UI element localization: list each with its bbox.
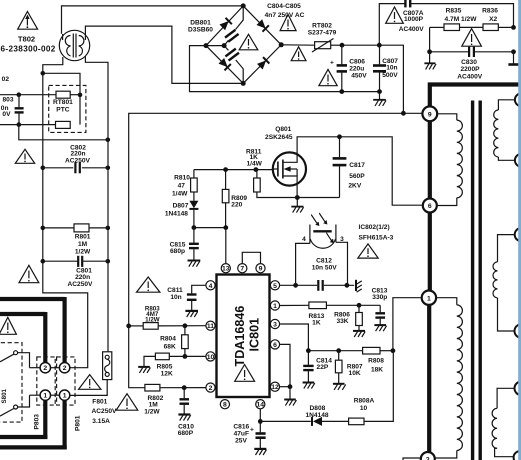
svg-text:5: 5 [273, 283, 277, 290]
svg-text:R804: R804 [160, 335, 176, 342]
wire mains L input [0, 94, 56, 96]
resistor R806 [356, 305, 363, 330]
svg-text:12K: 12K [161, 371, 173, 378]
wire pin3 to feedback row [280, 324, 309, 351]
capacitor C812 [318, 280, 354, 291]
ground pin5 (sideways) [356, 280, 362, 292]
wire pin2 row R802 [129, 326, 145, 388]
wire T802 bottom-right lead [85, 57, 108, 140]
capacitor C805 (inner) [224, 46, 228, 51]
ground bus [373, 92, 386, 106]
connector P803 dashed box [37, 357, 55, 405]
resistor R835 [430, 24, 483, 31]
switch contact lower [14, 405, 18, 409]
warning triangle C801 [19, 265, 39, 282]
diode D807 [189, 201, 198, 228]
ground pin12 [284, 387, 296, 406]
pin 8 [220, 400, 229, 409]
svg-text:560P: 560P [349, 173, 365, 180]
thick wire 6-1 [428, 213, 432, 291]
svg-text:11: 11 [207, 323, 214, 330]
svg-text:C811: C811 [167, 287, 183, 294]
svg-text:10: 10 [360, 405, 368, 412]
svg-text:1/4W: 1/4W [247, 160, 263, 167]
svg-text:D807: D807 [173, 202, 189, 209]
secondary winding A-B [494, 100, 515, 161]
secondary node B [515, 154, 521, 167]
svg-text:4.7M 1/2W: 4.7M 1/2W [445, 16, 478, 23]
capacitor C807 [373, 45, 386, 94]
primary winding 9-6 [437, 114, 463, 206]
svg-text:AC250V: AC250V [92, 408, 118, 415]
svg-text:680p: 680p [170, 248, 185, 255]
capacitor C816 [250, 421, 266, 448]
ground C813 [374, 325, 386, 331]
svg-text:1K: 1K [312, 320, 321, 327]
terminal bar right [508, 52, 521, 65]
warning triangle C806 [319, 69, 337, 85]
primary winding 1-3 [435, 298, 463, 458]
svg-text:4: 4 [302, 236, 306, 243]
svg-text:6: 6 [428, 203, 432, 210]
node RT801 right [78, 93, 83, 98]
warning triangle R803 [137, 277, 160, 292]
svg-text:RT802: RT802 [312, 22, 332, 29]
resistor R803 [143, 323, 158, 330]
pin 10 [206, 352, 215, 361]
ground C815 [188, 261, 201, 267]
svg-text:9: 9 [428, 111, 432, 118]
fuse F801 [70, 352, 112, 396]
svg-text:R835: R835 [446, 8, 462, 15]
secondary winding C-D [493, 235, 515, 331]
svg-text:Q801: Q801 [275, 126, 291, 133]
pin 6 [270, 340, 279, 349]
warning triangle DB801 [239, 34, 258, 50]
pin 4 [206, 281, 215, 290]
svg-text:AC250V: AC250V [68, 281, 94, 288]
IC U801 TDA16846 box [217, 275, 270, 398]
svg-text:AC250V: AC250V [65, 157, 91, 164]
svg-text:DB801: DB801 [190, 19, 211, 26]
svg-text:F801: F801 [92, 399, 107, 406]
ground C811 [185, 311, 198, 317]
svg-text:2200P: 2200P [460, 66, 480, 73]
resistor R808A [349, 418, 364, 425]
capacitor C803 [15, 92, 24, 127]
capacitor C817 [333, 137, 347, 198]
wire gate row [194, 169, 273, 171]
resistor R804 [182, 326, 189, 357]
svg-text:+: + [330, 60, 334, 67]
diode bottom-left [218, 58, 231, 71]
ground Q801 source [291, 198, 303, 213]
svg-text:1: 1 [63, 393, 67, 400]
capacitor C804 (inner) [236, 6, 244, 30]
svg-text:6: 6 [273, 342, 277, 349]
svg-text:2: 2 [43, 365, 47, 372]
resistor R809 [222, 170, 229, 228]
svg-text:C830: C830 [461, 59, 477, 66]
pin 12 [270, 382, 279, 391]
svg-text:3: 3 [426, 457, 430, 460]
thick wire 9-6 [428, 121, 432, 199]
svg-text:R801: R801 [75, 234, 91, 241]
capacitor C814 [303, 351, 313, 382]
thick mains lead outer bottom [62, 401, 66, 450]
rail left x=42.8 [43, 73, 88, 367]
wire top AC rail to bridge [62, 6, 244, 34]
pin 3 [270, 319, 279, 328]
wire source node [297, 184, 339, 198]
svg-text:1N4148: 1N4148 [165, 211, 188, 218]
svg-text:R808: R808 [368, 357, 384, 364]
node 3 [421, 452, 435, 460]
capacitor C802 [41, 162, 111, 173]
capacitor C830 [427, 25, 516, 57]
svg-text:803: 803 [2, 97, 13, 104]
capacitor C810 [180, 388, 190, 414]
resistor R810 [191, 170, 198, 201]
pin 14 [256, 400, 265, 409]
thick mains lead inner bottom [43, 401, 47, 440]
svg-text:10n 50V: 10n 50V [312, 265, 338, 272]
connector pin P801-1 [59, 390, 69, 400]
wire pin2 mating [51, 367, 60, 369]
wire pin1 mating [51, 394, 60, 396]
ground C810 [178, 415, 190, 421]
warning triangle T802 [18, 12, 38, 30]
secondary node D [515, 324, 521, 338]
wire pin6 pin12 ground [280, 344, 290, 386]
warning triangle C804 [280, 14, 296, 30]
wire N drop to C802 row [19, 125, 108, 140]
svg-text:9: 9 [259, 266, 263, 273]
blue margin line [518, 0, 521, 460]
svg-text:220: 220 [231, 202, 242, 209]
capacitor C813 [375, 305, 385, 324]
svg-text:1: 1 [43, 393, 47, 400]
light arrows [311, 214, 320, 226]
svg-text:10n: 10n [170, 294, 181, 301]
svg-text:3: 3 [340, 236, 344, 243]
svg-text:7: 7 [240, 266, 244, 273]
svg-text:220u: 220u [349, 65, 364, 72]
svg-text:AC400V: AC400V [457, 73, 483, 80]
svg-text:330p: 330p [372, 294, 387, 301]
node 6 [423, 199, 437, 213]
transistor Q801 [273, 152, 306, 185]
svg-text:1/2W: 1/2W [144, 408, 160, 415]
wire T802 right stub to bridge bottom [85, 26, 243, 83]
warning triangle C830 [462, 29, 482, 47]
resistor R808 [363, 347, 380, 354]
transformer core [471, 101, 474, 460]
diode top-left [219, 18, 232, 31]
warning triangle AC250V [116, 394, 138, 411]
secondary node E [515, 382, 521, 396]
svg-text:P801: P801 [75, 415, 82, 431]
thick mains lead inner top [0, 312, 45, 316]
svg-text:22P: 22P [317, 364, 329, 371]
resistor R811 [254, 170, 298, 198]
svg-text:2: 2 [209, 385, 213, 392]
svg-text:TDA16846: TDA16846 [233, 306, 247, 367]
svg-text:S237-479: S237-479 [308, 30, 337, 37]
svg-text:R836: R836 [482, 8, 498, 15]
secondary winding E-F [492, 388, 514, 456]
wire pin1 left lead [30, 394, 41, 396]
svg-text:R805: R805 [157, 364, 173, 371]
wire opto pin4 riser [296, 243, 310, 285]
diode D808 [312, 417, 349, 426]
svg-text:1N4148: 1N4148 [305, 412, 328, 419]
diode bottom-right [257, 57, 270, 70]
svg-text:1/2W: 1/2W [75, 249, 91, 256]
wire top AC400V rail [379, 4, 405, 46]
connector pin P803-1 [40, 390, 50, 400]
wire pin4 to C811 [192, 285, 206, 293]
secondary node C [515, 228, 521, 241]
svg-text:RT801: RT801 [53, 99, 73, 106]
wire pin5 row [280, 284, 318, 286]
pin 13 [221, 264, 230, 273]
svg-text:1: 1 [427, 295, 431, 302]
svg-text:02: 02 [2, 76, 10, 83]
svg-text:IC801: IC801 [248, 318, 262, 352]
pin 1 [270, 301, 279, 310]
secondary node A [515, 93, 521, 106]
node C802 right [106, 138, 111, 143]
svg-text:13: 13 [222, 266, 230, 273]
node 9 [422, 106, 437, 121]
pin 9 [256, 264, 265, 273]
wire node 3 left stub [403, 458, 421, 460]
svg-text:680P: 680P [178, 430, 194, 437]
ground R807 [333, 384, 346, 390]
wire branch to RT801 [43, 73, 80, 124]
dashed box RT801 [49, 85, 86, 132]
svg-text:68K: 68K [164, 343, 176, 350]
wire bridge plus to RT802 [281, 44, 314, 46]
MAIN-WIRES [0, 6, 243, 450]
wire pin2 left lead [30, 367, 41, 369]
svg-text:1: 1 [273, 303, 277, 310]
svg-text:2SK2645: 2SK2645 [265, 134, 293, 141]
wire drain to node 6 [297, 137, 422, 205]
warning triangle P803 [0, 317, 16, 334]
capacitor C807A [405, 0, 410, 7]
svg-text:14: 14 [257, 402, 265, 409]
wire opto pin3 riser [336, 242, 348, 285]
warning triangle F801 [79, 375, 101, 390]
resistor R836 [483, 24, 514, 31]
transformer T802 [59, 30, 89, 60]
thick B+ feed wire [430, 85, 519, 107]
svg-text:47: 47 [178, 183, 186, 190]
thick wire 1-3 [427, 305, 431, 452]
svg-text:PTC: PTC [56, 107, 69, 114]
ground R805 [138, 367, 150, 373]
rail right x=108 down to fuse [107, 140, 109, 352]
wire B+ box top rail [129, 113, 423, 326]
svg-text:4n7 250V AC: 4n7 250V AC [265, 12, 305, 19]
thermistor RT801 (top element) [56, 91, 70, 98]
wire pin10 row [169, 355, 206, 357]
thermistor RT801 (bottom element) [56, 121, 71, 128]
svg-text:1000P: 1000P [404, 16, 424, 23]
ground C814 [303, 383, 315, 389]
switch contact upper [14, 351, 18, 355]
svg-text:10: 10 [207, 354, 215, 361]
svg-text:450V: 450V [351, 72, 367, 79]
warning triangle IC802 [358, 244, 378, 258]
capacitor C815 [189, 228, 199, 260]
thick mains lead outer top [0, 297, 65, 301]
pin 2 [206, 383, 215, 392]
svg-text:AC400V: AC400V [399, 26, 425, 33]
svg-text:IC802(1/2): IC802(1/2) [359, 224, 390, 231]
diode top-right [256, 19, 269, 32]
warning triangle C807A [386, 7, 404, 23]
ground R806 [353, 331, 365, 337]
pin 7 [238, 264, 247, 273]
resistor R801 [41, 224, 111, 232]
resistor R807 [335, 351, 342, 384]
wire feedback row [308, 350, 362, 352]
thermistor RT802 [312, 39, 342, 53]
capacitor C806 [330, 45, 347, 94]
svg-text:0V: 0V [2, 111, 11, 118]
wire pin7-pin9 bridge [242, 252, 260, 263]
svg-text:C817: C817 [349, 162, 365, 169]
svg-text:T802: T802 [18, 34, 35, 43]
svg-text:X2: X2 [489, 16, 497, 23]
wire mains N input [0, 124, 56, 126]
svg-text:8: 8 [223, 402, 227, 409]
svg-text:10n: 10n [386, 64, 397, 71]
optocoupler IC802 [310, 213, 336, 249]
wire T802 bottom-left lead [43, 57, 63, 73]
node junction RT801 branch [41, 71, 46, 76]
capacitor C811 [187, 295, 197, 311]
secondary node F [514, 451, 521, 460]
wire pin11 row R803 [129, 325, 144, 327]
svg-text:4: 4 [209, 283, 213, 290]
switch dashed box [0, 343, 22, 422]
pin 11 [206, 321, 215, 330]
wire feedback rail to node 1 [393, 298, 421, 351]
node drain C817 [337, 134, 342, 139]
svg-text:R808A: R808A [354, 397, 375, 404]
svg-text:10K: 10K [349, 370, 361, 377]
resistor R805 [144, 353, 169, 366]
bridge rectifier DB801 [204, 3, 284, 86]
svg-text:R810: R810 [174, 174, 190, 181]
svg-text:500V: 500V [382, 72, 398, 79]
wire pin13 row [194, 228, 226, 264]
svg-text:2: 2 [63, 365, 67, 372]
svg-text:C804-C805: C804-C805 [267, 3, 301, 10]
svg-text:3.15A: 3.15A [92, 418, 110, 425]
svg-text:25V: 25V [235, 437, 247, 444]
warning triangle IC801 [235, 365, 255, 382]
svg-text:6-238300-002: 6-238300-002 [1, 44, 56, 53]
svg-text:33K: 33K [336, 318, 348, 325]
wire pin14 to D808 row [260, 409, 311, 422]
svg-text:P803: P803 [34, 414, 41, 430]
svg-text:3: 3 [273, 322, 277, 329]
resistor R813 [309, 302, 327, 309]
wire bridge minus to bus [190, 46, 380, 92]
wire B+ row [342, 45, 403, 113]
connector P801 dashed box [57, 357, 75, 405]
svg-text:S801: S801 [1, 388, 8, 403]
svg-text:18K: 18K [371, 367, 383, 374]
svg-text:D3SB60: D3SB60 [188, 26, 213, 33]
connector pin P803-2 [40, 363, 50, 373]
ground C830 left [424, 52, 436, 70]
svg-text:220n: 220n [75, 274, 90, 281]
warning triangle C802 [15, 149, 34, 163]
node 1 [422, 291, 436, 305]
svg-text:1/4W: 1/4W [172, 191, 188, 198]
capacitor C801 [41, 256, 111, 267]
svg-text:+: + [250, 427, 254, 434]
pin 5 [270, 281, 279, 290]
svg-text:12: 12 [271, 384, 279, 391]
warning triangle RT802 [291, 47, 306, 61]
svg-text:1/2W: 1/2W [145, 317, 160, 324]
svg-text:2KV: 2KV [348, 183, 361, 190]
svg-text:SFH615A-3: SFH615A-3 [359, 235, 394, 242]
wire pin1 row R813 [280, 304, 309, 306]
svg-text:1M: 1M [78, 241, 88, 248]
connector pin P801-2 [59, 363, 69, 373]
ground C816 [254, 449, 266, 455]
resistor R802 [145, 384, 160, 391]
